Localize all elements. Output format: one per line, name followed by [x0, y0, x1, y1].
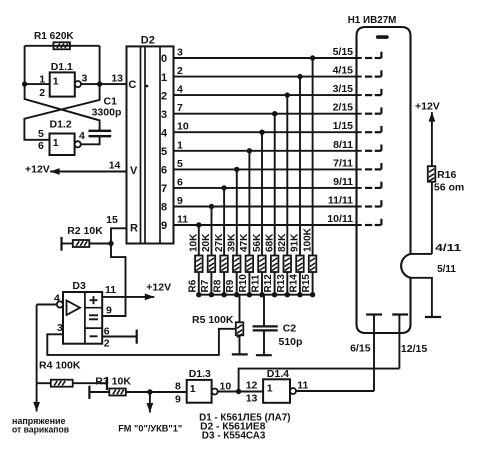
svg-text:2: 2: [161, 90, 167, 102]
svg-text:R1 620K: R1 620K: [34, 30, 74, 42]
svg-text:6: 6: [177, 176, 183, 188]
svg-text:3: 3: [161, 109, 167, 121]
svg-text:D1.2: D1.2: [50, 119, 72, 131]
svg-text:5/11: 5/11: [437, 263, 456, 275]
svg-text:R5 100K: R5 100K: [192, 314, 234, 326]
svg-text:4/15: 4/15: [333, 65, 354, 77]
svg-text:R11: R11: [251, 274, 262, 292]
svg-text:C: C: [128, 79, 136, 91]
svg-text:D1.3: D1.3: [189, 368, 211, 380]
svg-text:R3 10K: R3 10K: [95, 375, 131, 387]
svg-text:+12V: +12V: [146, 281, 171, 293]
svg-text:3: 3: [177, 47, 183, 59]
svg-text:R: R: [130, 223, 138, 235]
svg-text:R4 100K: R4 100K: [39, 360, 81, 372]
svg-text:14: 14: [109, 160, 121, 172]
svg-text:11: 11: [177, 214, 188, 226]
svg-text:47K: 47K: [239, 233, 250, 252]
svg-text:4/11: 4/11: [435, 242, 461, 254]
svg-text:11/11: 11/11: [328, 195, 353, 207]
svg-text:4: 4: [177, 84, 183, 96]
svg-text:20K: 20K: [201, 233, 212, 252]
svg-text:R8: R8: [213, 279, 224, 292]
svg-text:D2: D2: [141, 35, 155, 47]
svg-text:R16: R16: [437, 169, 456, 181]
svg-text:1: 1: [53, 137, 59, 149]
svg-text:11: 11: [297, 380, 308, 392]
svg-text:R7: R7: [200, 279, 211, 292]
svg-text:1: 1: [53, 76, 59, 88]
svg-text:1: 1: [190, 383, 196, 395]
svg-text:C2: C2: [283, 323, 297, 335]
svg-text:13: 13: [246, 393, 258, 405]
svg-text:1: 1: [177, 139, 183, 151]
svg-text:2: 2: [104, 337, 110, 349]
svg-text:1: 1: [267, 383, 273, 395]
svg-text:+12V: +12V: [415, 100, 440, 112]
svg-text:9: 9: [175, 394, 181, 406]
svg-text:82K: 82K: [277, 233, 288, 252]
svg-text:R15: R15: [301, 274, 312, 293]
svg-text:100K: 100K: [302, 227, 313, 252]
svg-text:0: 0: [161, 53, 167, 65]
svg-text:R10: R10: [238, 274, 249, 293]
svg-text:68K: 68K: [264, 233, 275, 252]
svg-text:D3: D3: [72, 280, 86, 292]
svg-text:8: 8: [161, 202, 167, 214]
svg-text:5: 5: [177, 158, 183, 170]
svg-text:12/15: 12/15: [401, 343, 427, 355]
svg-text:13: 13: [111, 73, 123, 85]
svg-text:1: 1: [39, 74, 45, 86]
svg-text:3: 3: [57, 322, 63, 334]
svg-text:V: V: [130, 165, 138, 177]
svg-text:510p: 510p: [279, 336, 303, 348]
svg-text:FM "0"/УКВ"1": FM "0"/УКВ"1": [118, 424, 182, 435]
svg-text:10: 10: [220, 381, 232, 393]
svg-text:10/11: 10/11: [327, 213, 353, 225]
svg-text:11: 11: [105, 284, 116, 296]
svg-text:3/15: 3/15: [333, 83, 354, 95]
svg-text:6: 6: [38, 140, 44, 152]
svg-text:1: 1: [161, 72, 167, 84]
svg-text:2: 2: [39, 87, 45, 99]
svg-text:2: 2: [177, 65, 183, 77]
svg-text:6/15: 6/15: [350, 343, 371, 355]
svg-text:6: 6: [104, 325, 110, 337]
svg-text:7/11: 7/11: [333, 157, 353, 169]
svg-text:15: 15: [106, 214, 118, 226]
svg-text:4: 4: [161, 127, 168, 139]
svg-text:9: 9: [161, 220, 167, 232]
svg-text:9/11: 9/11: [333, 176, 353, 188]
svg-text:5: 5: [38, 128, 44, 140]
svg-text:2/15: 2/15: [333, 102, 354, 114]
svg-text:4: 4: [54, 292, 60, 304]
svg-text:от варикапов: от варикапов: [12, 424, 69, 435]
svg-text:10: 10: [177, 121, 189, 133]
svg-text:1/15: 1/15: [333, 120, 354, 132]
svg-text:7: 7: [177, 102, 183, 114]
svg-text:+12V: +12V: [25, 163, 50, 175]
svg-text:R12: R12: [263, 274, 274, 293]
svg-text:D3 - К554СА3: D3 - К554СА3: [202, 429, 266, 441]
svg-text:R14: R14: [288, 274, 299, 293]
svg-text:D1.1: D1.1: [51, 61, 73, 73]
svg-text:6: 6: [161, 165, 167, 177]
svg-text:5/15: 5/15: [333, 46, 354, 58]
svg-text:3300p: 3300p: [92, 107, 122, 119]
svg-text:R6: R6: [187, 279, 198, 292]
svg-text:4: 4: [79, 130, 85, 142]
svg-text:8/11: 8/11: [333, 139, 353, 151]
svg-text:12: 12: [246, 380, 258, 392]
svg-text:10K: 10K: [189, 233, 200, 252]
svg-text:5: 5: [161, 146, 167, 158]
svg-text:56K: 56K: [252, 233, 263, 252]
svg-text:8: 8: [175, 381, 181, 393]
svg-text:91K: 91K: [290, 233, 301, 252]
svg-text:39K: 39K: [227, 233, 238, 252]
svg-text:9: 9: [106, 304, 112, 316]
svg-text:9: 9: [177, 195, 183, 207]
svg-text:7: 7: [161, 183, 167, 195]
svg-text:R13: R13: [276, 274, 287, 293]
svg-text:3: 3: [82, 73, 88, 85]
svg-text:56 om: 56 om: [434, 182, 464, 194]
svg-text:R9: R9: [225, 279, 236, 292]
svg-text:Н1 ИВ27М: Н1 ИВ27М: [348, 14, 397, 26]
svg-text:27K: 27K: [214, 233, 225, 252]
svg-text:R2 10K: R2 10K: [67, 225, 103, 237]
